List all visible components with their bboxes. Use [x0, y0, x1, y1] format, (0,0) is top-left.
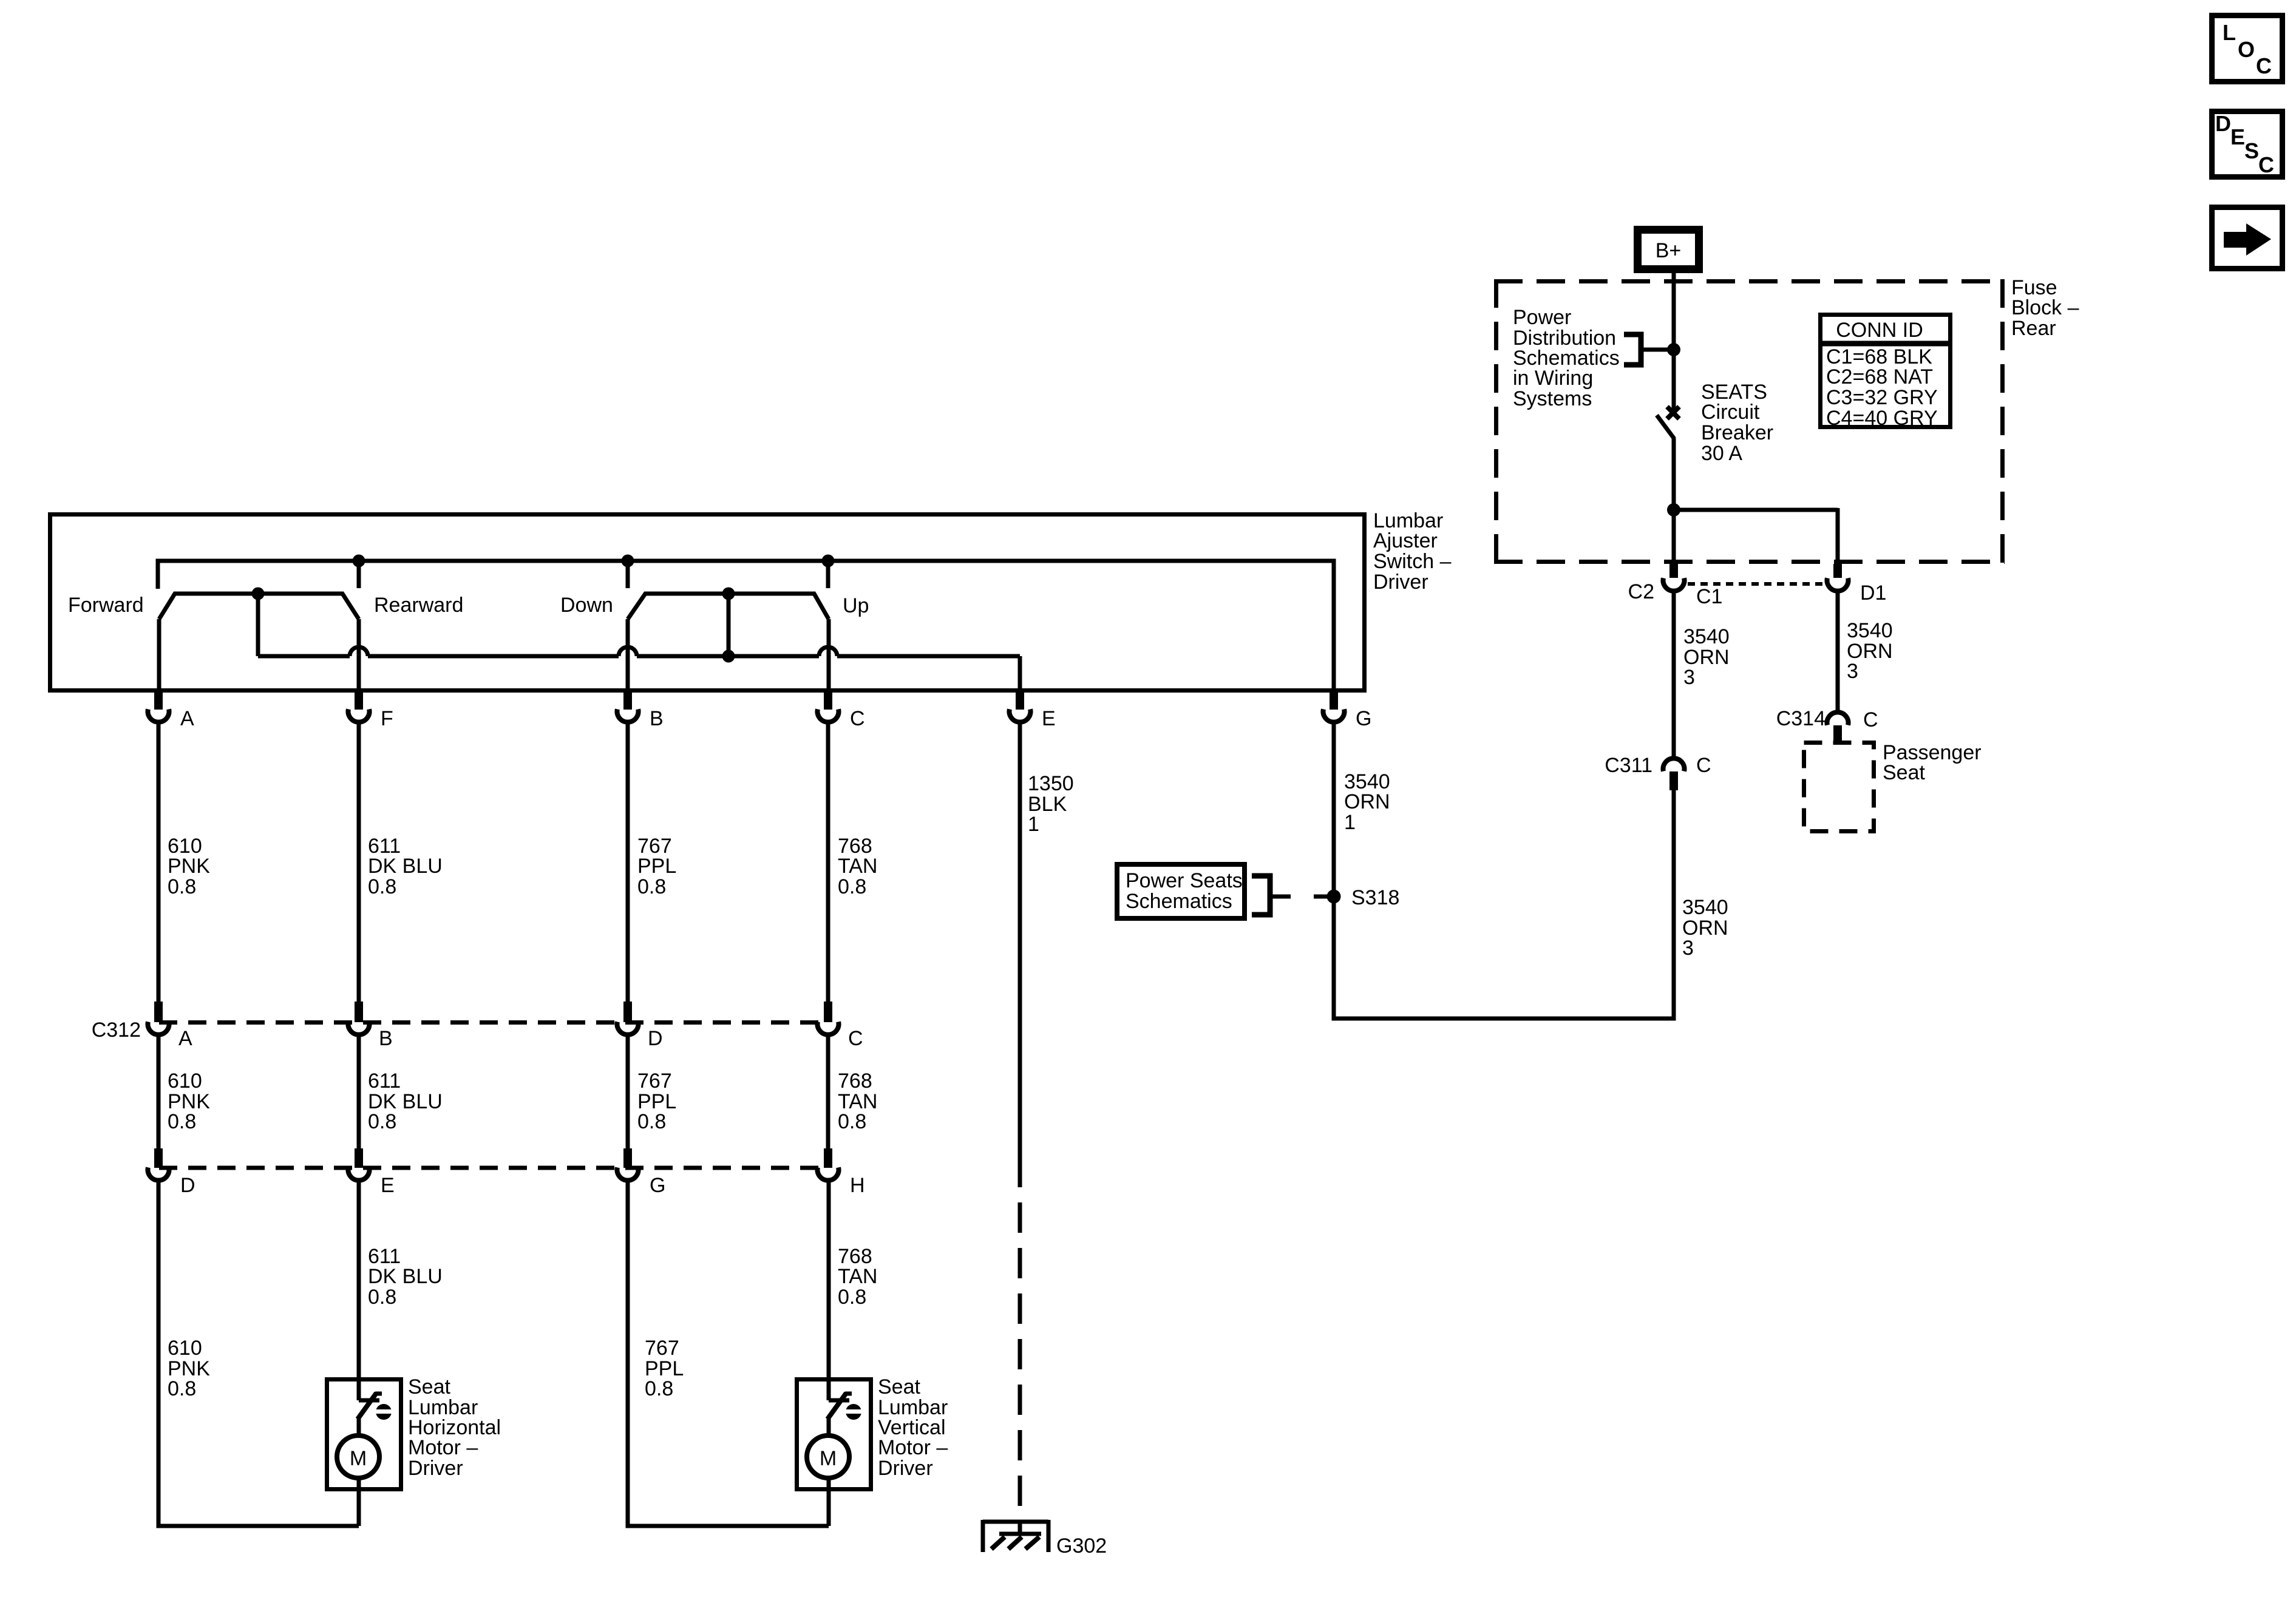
svg-text:Power: Power	[1513, 306, 1571, 329]
svg-text:Seat: Seat	[878, 1375, 920, 1398]
wire C2 to C311	[1672, 592, 1676, 759]
svg-text:3: 3	[1683, 666, 1695, 689]
power seats schematics box	[1117, 864, 1245, 918]
svg-text:C2: C2	[1628, 580, 1654, 603]
icon LOC	[2212, 16, 2283, 82]
thermal element symbol horizontal	[376, 1404, 392, 1420]
svg-text:H: H	[850, 1174, 865, 1197]
wire 767 PPL C312 to row2	[626, 1035, 630, 1150]
svg-text:3: 3	[1682, 937, 1694, 960]
svg-text:C2=68 NAT: C2=68 NAT	[1826, 365, 1933, 388]
terminal C of switch	[824, 693, 832, 710]
svg-text:DK BLU: DK BLU	[368, 1265, 443, 1288]
svg-text:D: D	[2215, 111, 2231, 136]
svg-text:0.8: 0.8	[168, 1377, 196, 1400]
svg-text:Seat: Seat	[408, 1375, 450, 1398]
svg-text:0.8: 0.8	[645, 1377, 673, 1400]
connector C2/C1 pin	[1669, 564, 1678, 578]
svg-text:ORN: ORN	[1344, 790, 1390, 813]
svg-text:1: 1	[1344, 811, 1356, 834]
switch supply rail	[158, 561, 1334, 693]
svg-text:0.8: 0.8	[368, 1286, 396, 1309]
wire 1350 BLK E down	[1018, 722, 1022, 1157]
svg-text:Block –: Block –	[2011, 296, 2079, 319]
svg-text:M: M	[350, 1447, 367, 1470]
wire 767 PPL to vertical motor return	[628, 1181, 829, 1526]
svg-text:D: D	[648, 1027, 663, 1050]
battery feed B+ symbol	[1634, 226, 1703, 273]
svg-text:A: A	[180, 707, 194, 730]
svg-text:C: C	[850, 707, 865, 730]
svg-text:3540: 3540	[1683, 625, 1730, 648]
stationary contact C	[826, 561, 830, 588]
wire B+ to breaker	[1672, 273, 1676, 413]
node common line junction	[722, 650, 735, 663]
seat lumbar vertical motor box	[797, 1380, 871, 1490]
svg-text:Circuit: Circuit	[1701, 401, 1760, 424]
ground G302 symbol	[1018, 1520, 1022, 1534]
svg-text:610: 610	[168, 1070, 202, 1093]
svg-text:C4=40 GRY: C4=40 GRY	[1826, 407, 1938, 430]
CONN ID table	[1821, 315, 1951, 427]
svg-text:E: E	[2230, 124, 2245, 149]
svg-text:Power Seats: Power Seats	[1126, 869, 1243, 892]
svg-text:Rear: Rear	[2011, 317, 2056, 340]
svg-text:C: C	[2256, 53, 2272, 78]
svg-text:Driver: Driver	[1373, 571, 1428, 594]
connector C312 cavity A	[154, 1002, 163, 1022]
svg-text:DK BLU: DK BLU	[368, 855, 443, 878]
connector C314	[1827, 712, 1849, 725]
svg-text:L: L	[2223, 20, 2236, 45]
svg-text:CONN ID: CONN ID	[1836, 319, 1923, 342]
svg-text:TAN: TAN	[838, 1265, 877, 1288]
svg-text:D1: D1	[1860, 581, 1886, 605]
svg-text:Seat: Seat	[1883, 761, 1925, 784]
svg-text:C: C	[848, 1027, 863, 1050]
node forward contact common	[252, 588, 265, 600]
svg-text:Rearward: Rearward	[374, 594, 463, 617]
svg-text:0.8: 0.8	[168, 1110, 196, 1133]
wire down/up common down	[727, 594, 731, 656]
wire switch F leg	[357, 619, 361, 693]
icon DESC	[2212, 112, 2283, 177]
svg-text:0.8: 0.8	[168, 875, 196, 898]
wire motor to bottom horizontal	[357, 1477, 361, 1526]
passenger seat dashed box	[1804, 743, 1874, 832]
connector row2 cavity D	[154, 1148, 163, 1168]
svg-text:Systems: Systems	[1513, 387, 1592, 410]
svg-text:Motor –: Motor –	[408, 1436, 478, 1459]
svg-text:3540: 3540	[1847, 619, 1893, 642]
svg-text:767: 767	[645, 1337, 679, 1360]
svg-text:F: F	[381, 707, 393, 730]
connector row2 cavity E	[355, 1148, 363, 1168]
svg-text:Breaker: Breaker	[1701, 421, 1773, 444]
wire 768 TAN to vertical motor	[827, 1181, 831, 1377]
svg-text:0.8: 0.8	[637, 875, 666, 898]
svg-text:B: B	[379, 1027, 393, 1050]
connector row2 cavity H	[824, 1148, 832, 1168]
wire 1350 BLK dashed to ground	[1018, 1157, 1022, 1514]
wire switch A leg	[157, 619, 161, 693]
terminal G of switch	[1330, 693, 1338, 710]
svg-text:A: A	[178, 1027, 192, 1050]
svg-text:B: B	[650, 707, 664, 730]
wire 611 DK BLU F to C312	[357, 722, 361, 1003]
wire 611 DK BLU to horizontal motor	[357, 1181, 361, 1377]
wire 611 DK BLU C312 to row2	[357, 1035, 361, 1150]
inline connector dotted link	[1688, 582, 1826, 586]
connector D1 pin	[1833, 564, 1842, 578]
wire motor to bottom vertical	[827, 1477, 831, 1526]
svg-text:Schematics: Schematics	[1126, 890, 1232, 913]
wire thermal to motor vertical	[827, 1417, 831, 1436]
svg-text:Driver: Driver	[408, 1457, 463, 1480]
svg-text:0.8: 0.8	[368, 1110, 396, 1133]
switch contact down/up	[628, 594, 829, 619]
svg-text:G: G	[1356, 707, 1371, 730]
svg-text:G: G	[650, 1174, 665, 1197]
switch contact forward/rearward	[159, 594, 359, 619]
terminal A of switch	[154, 693, 163, 710]
svg-text:E: E	[381, 1174, 395, 1197]
svg-text:Ajuster: Ajuster	[1373, 529, 1438, 552]
svg-text:Down: Down	[560, 594, 613, 617]
thermal element symbol vertical	[846, 1404, 861, 1420]
wire 610 PNK A to C312	[157, 722, 161, 1003]
stationary contact F	[357, 561, 361, 588]
svg-text:S318: S318	[1351, 886, 1399, 909]
svg-text:0.8: 0.8	[838, 1286, 866, 1309]
svg-text:Driver: Driver	[878, 1457, 933, 1480]
wire C311 down	[1672, 790, 1676, 1021]
wire switch B leg	[626, 619, 630, 693]
connector C311	[1663, 758, 1685, 771]
motor M circle vertical	[807, 1436, 849, 1478]
svg-text:C1: C1	[1696, 585, 1722, 608]
svg-text:1: 1	[1028, 813, 1039, 836]
splice S318	[1327, 890, 1341, 904]
svg-text:611: 611	[368, 1070, 401, 1093]
connector row2 dashed line	[159, 1166, 828, 1170]
wire 768 TAN C312 to row2	[826, 1035, 830, 1150]
svg-text:M: M	[820, 1447, 837, 1470]
svg-text:768: 768	[838, 1070, 872, 1093]
svg-text:C312: C312	[92, 1019, 141, 1042]
svg-text:Switch –: Switch –	[1373, 550, 1452, 573]
terminal B of switch	[623, 693, 632, 710]
icon forward arrow	[2212, 208, 2283, 269]
node rail at F	[353, 555, 365, 568]
svg-text:C3=32 GRY: C3=32 GRY	[1826, 386, 1938, 409]
svg-text:in Wiring: in Wiring	[1513, 367, 1593, 390]
svg-text:0.8: 0.8	[838, 875, 866, 898]
terminal E of switch	[1016, 693, 1024, 710]
svg-text:30 A: 30 A	[1701, 442, 1742, 465]
svg-text:C311: C311	[1605, 754, 1652, 777]
svg-text:Up: Up	[843, 594, 869, 617]
svg-text:0.8: 0.8	[838, 1110, 866, 1133]
wire 768 TAN C to C312	[826, 722, 830, 1003]
wire switch C leg	[827, 619, 831, 693]
wire common to E with crossovers	[256, 654, 260, 656]
svg-text:S: S	[2244, 138, 2259, 163]
wire 3540 ORN G to S318	[1332, 722, 1336, 1021]
connector C312 cavity B	[355, 1002, 363, 1022]
svg-text:D: D	[180, 1174, 195, 1197]
node power distribution tap	[1667, 343, 1680, 356]
svg-text:Forward: Forward	[68, 594, 144, 617]
stationary contact B	[626, 561, 630, 588]
connector C312 cavity D	[623, 1002, 632, 1022]
svg-text:0.8: 0.8	[368, 875, 396, 898]
node rail at B	[622, 555, 634, 568]
svg-text:3540: 3540	[1682, 896, 1728, 919]
wire 610 PNK to horizontal motor return	[158, 1181, 359, 1526]
svg-text:1350: 1350	[1028, 772, 1074, 795]
wire junction to D1	[1674, 508, 1838, 512]
svg-text:C: C	[2258, 152, 2274, 177]
connector C312 cavity C	[824, 1002, 832, 1022]
svg-text:0.8: 0.8	[637, 1110, 666, 1133]
wire 767 PPL B to C312	[626, 722, 630, 1003]
svg-text:B+: B+	[1656, 239, 1682, 262]
svg-text:TAN: TAN	[838, 855, 877, 878]
svg-text:C: C	[1696, 754, 1711, 777]
svg-text:3: 3	[1847, 660, 1858, 683]
wire contact common down	[256, 594, 260, 656]
node rail at C	[822, 555, 835, 568]
thermal breaker in vertical motor	[827, 1377, 831, 1400]
svg-text:610: 610	[168, 1337, 202, 1360]
svg-text:Motor –: Motor –	[878, 1436, 948, 1459]
svg-text:G302: G302	[1056, 1534, 1107, 1558]
circuit breaker SEATS 30A	[1667, 407, 1679, 419]
wire bottom run to S318 riser	[1334, 1017, 1676, 1021]
svg-text:C: C	[1863, 708, 1878, 731]
wire breaker to C2	[1672, 438, 1676, 564]
svg-text:O: O	[2238, 37, 2255, 62]
lumbar adjuster switch box	[50, 515, 1365, 691]
terminal F of switch	[355, 693, 363, 710]
motor M circle horizontal	[337, 1436, 379, 1478]
svg-text:767: 767	[637, 1070, 672, 1093]
wire 610 PNK C312 to row2	[157, 1035, 161, 1150]
node down/up contact common	[722, 588, 735, 600]
wire thermal to motor horizontal	[357, 1417, 361, 1436]
fuse block dashed outline	[1494, 279, 2005, 283]
connector C312 dashed line	[159, 1020, 828, 1025]
svg-text:PNK: PNK	[168, 855, 210, 878]
connector row2 cavity G	[623, 1148, 632, 1168]
thermal breaker in horizontal motor	[357, 1377, 361, 1400]
svg-text:C314: C314	[1776, 707, 1826, 730]
seat lumbar horizontal motor box	[327, 1380, 401, 1490]
svg-text:E: E	[1042, 707, 1056, 730]
node breaker output junction	[1667, 503, 1680, 517]
svg-text:PPL: PPL	[637, 855, 676, 878]
bracket Power Distribution	[1624, 334, 1641, 365]
wire D1 to C314	[1836, 592, 1840, 713]
bracket Power Seats	[1252, 876, 1270, 915]
